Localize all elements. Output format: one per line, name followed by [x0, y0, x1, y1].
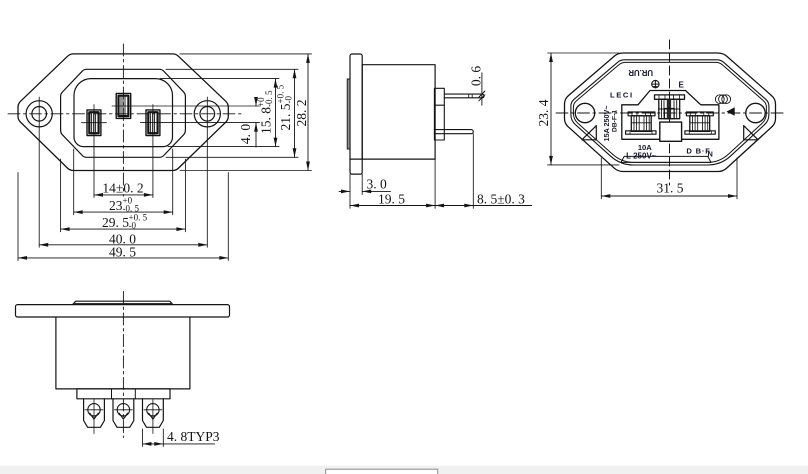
extension line flange right	[361, 174, 363, 194]
pin N hatch	[151, 114, 155, 135]
svg-text:28. 2: 28. 2	[294, 100, 309, 127]
dimension 8.5 line	[435, 205, 473, 207]
bottom small button outline	[326, 469, 438, 474]
N terminal bottom bar	[685, 131, 715, 134]
dimension 29.5 line	[61, 228, 186, 230]
rear inner rim octagon	[571, 60, 769, 165]
extension line recess top	[160, 78, 279, 80]
svg-text:23. 4: 23. 4	[536, 99, 551, 126]
dimension 0.6 line with slash ticks	[481, 73, 483, 105]
pin 2 crosshair	[114, 409, 132, 411]
svg-text:23: 23	[109, 198, 123, 213]
side recess lip	[347, 79, 350, 149]
pin E outer	[116, 93, 131, 118]
pin L centerlines	[93, 105, 95, 142]
23.4 extension bottom	[548, 164, 620, 166]
svg-text:-0. 5: -0. 5	[264, 90, 274, 107]
pin 3 keyhole	[147, 404, 159, 416]
svg-text:10A: 10A	[638, 143, 652, 152]
earth symbol	[652, 80, 659, 87]
pin L inner	[89, 112, 98, 133]
pin N centerline	[152, 105, 154, 142]
rear horizontal centerline	[556, 112, 784, 114]
strip ribs	[112, 389, 136, 399]
side body bottom step line	[350, 158, 362, 160]
terminal pin 2	[113, 399, 134, 428]
svg-text:L 250V~: L 250V~	[626, 152, 657, 161]
extension line outer top	[180, 53, 312, 55]
rear right wing cutout	[744, 126, 758, 140]
svg-text:N: N	[708, 150, 713, 159]
pin N outer	[146, 110, 160, 136]
dimension 23.4 line	[550, 53, 552, 165]
svg-text:LECI: LECI	[610, 91, 634, 100]
pin E hatch	[121, 97, 125, 115]
L terminal body	[631, 116, 651, 132]
dimension 14 line	[94, 194, 153, 196]
front recess outline	[74, 79, 173, 147]
svg-text:29. 5: 29. 5	[102, 215, 129, 230]
bottom view flange bar	[16, 305, 230, 317]
pin 1 keyhole	[88, 404, 100, 416]
extension line E-pin row (4.0 top)	[112, 105, 260, 107]
svg-text:0. 6: 0. 6	[468, 66, 483, 87]
front view vertical centerline	[122, 44, 124, 196]
right mounting hole	[194, 101, 220, 127]
4.8 extension right	[162, 429, 164, 447]
N terminal top bar	[686, 112, 713, 116]
side terminal block divider	[434, 104, 444, 106]
rear right mounting hole	[746, 103, 765, 122]
L terminal bottom bar	[626, 131, 656, 134]
side terminal block	[434, 88, 444, 140]
dimension 4.8 line	[143, 443, 164, 445]
dimension 31.5 line	[601, 195, 737, 197]
extension line L/N-pin row (4.0 bottom)	[141, 122, 260, 124]
rear left wing cutout	[582, 126, 596, 140]
pin 2 keyhole	[117, 404, 129, 416]
svg-text:49. 5: 49. 5	[109, 245, 136, 260]
svg-text:8. 5±0. 3: 8. 5±0. 3	[477, 191, 525, 206]
extension line 23 left	[73, 149, 75, 215]
extension line 49.5 left	[17, 173, 19, 261]
dimension 19.5 line	[350, 205, 435, 207]
bottom gray band	[0, 466, 808, 474]
pin L outer	[87, 110, 101, 136]
terminal pin 1	[84, 399, 105, 428]
extension line flange left	[349, 174, 351, 208]
N terminal body	[690, 116, 710, 132]
side flange plate	[350, 54, 362, 174]
side upper pin notch	[469, 94, 473, 98]
E terminal body	[659, 99, 680, 118]
dimension 15.8 line	[275, 79, 277, 147]
rear vertical centerline	[669, 40, 671, 185]
extension line 49.5 right	[227, 173, 229, 261]
svg-text:3. 0: 3. 0	[367, 177, 388, 192]
23.4 extension top	[548, 52, 620, 54]
extension line recess bottom	[168, 146, 279, 148]
extension line inner octagon bottom	[166, 156, 298, 158]
svg-text:15. 8: 15. 8	[259, 107, 274, 134]
extension line 29.5 right	[184, 159, 186, 232]
rear bottom lip bar	[621, 156, 711, 162]
extension line inner octagon top	[166, 68, 298, 70]
pin E inner	[119, 96, 129, 116]
svg-text:-0: -0	[284, 96, 294, 104]
extension line 23 right	[172, 149, 174, 215]
dimension 40.0 line	[39, 244, 207, 246]
dimension 49.5 line	[18, 257, 228, 259]
4.8 extension left	[142, 429, 144, 447]
dimension 23 line	[74, 211, 173, 213]
right hole centerline + 40.0 extension	[206, 97, 208, 247]
extension line outer bottom	[180, 170, 312, 172]
extension line 14 right (below N pin)	[152, 141, 154, 198]
L terminal top bar	[628, 112, 655, 116]
front outer flange octagon	[18, 54, 228, 171]
svg-text:19. 5: 19. 5	[378, 191, 405, 206]
svg-text:14±0. 2: 14±0. 2	[102, 180, 143, 195]
E terminal lower tab	[665, 108, 675, 118]
text 21.5 +0.5/-0 (rotated)	[276, 84, 294, 130]
svg-text:DB-F-1: DB-F-1	[611, 110, 618, 132]
svg-text:31. 5: 31. 5	[657, 181, 684, 196]
side upper pin	[444, 94, 484, 98]
extension line lower pin tip	[472, 134, 474, 209]
bottom view terminal base strip	[77, 389, 170, 399]
pin N inner	[148, 112, 157, 133]
front view horizontal centerline	[8, 113, 244, 115]
bottom view recess boss trapezoid	[73, 301, 173, 304]
rear outer octagon	[565, 53, 776, 172]
svg-text:4. 0: 4. 0	[238, 124, 253, 145]
dimension 4.0 line	[255, 98, 257, 107]
text 15.8 +0/-0.5 (rotated)	[256, 90, 274, 134]
extension line body right	[434, 159, 436, 208]
svg-text:E: E	[679, 81, 685, 90]
31.5 extension left	[600, 158, 602, 199]
svg-text:UR.UR: UR.UR	[628, 68, 653, 77]
dimension 3.0 line	[339, 190, 350, 192]
left mounting hole	[26, 101, 52, 127]
pin 1 centerlines	[93, 400, 95, 434]
rear label plate outline	[622, 91, 719, 140]
bottom view body	[56, 317, 190, 389]
svg-text:4. 8TYP3: 4. 8TYP3	[167, 429, 220, 444]
rear left mounting hole	[575, 103, 594, 122]
dimension 28.2 line	[307, 54, 309, 171]
svg-text:-0: -0	[129, 221, 137, 231]
front inner boss octagon	[61, 69, 186, 157]
31.5 extension right	[736, 158, 738, 199]
black triangle marker	[727, 107, 735, 116]
rear inner rim second line	[573, 62, 766, 162]
extension line 14 left (below L pin)	[93, 141, 95, 198]
side body	[362, 65, 435, 159]
terminal pin 3	[143, 399, 164, 428]
side lower pin	[434, 130, 473, 134]
pin 3 centerlines	[152, 400, 154, 434]
pin L hatch	[92, 114, 96, 135]
dimension 21.5 line	[294, 69, 296, 157]
extension line 29.5 left	[60, 159, 62, 232]
left hole centerline + 40.0 extension	[38, 97, 40, 247]
E terminal top bar	[655, 95, 685, 99]
CCC logo	[715, 95, 724, 104]
svg-text:21. 5: 21. 5	[278, 103, 293, 130]
bottom view vertical centerline	[122, 292, 124, 438]
fuse door	[660, 122, 682, 141]
svg-text:15A 250V~: 15A 250V~	[602, 105, 611, 141]
